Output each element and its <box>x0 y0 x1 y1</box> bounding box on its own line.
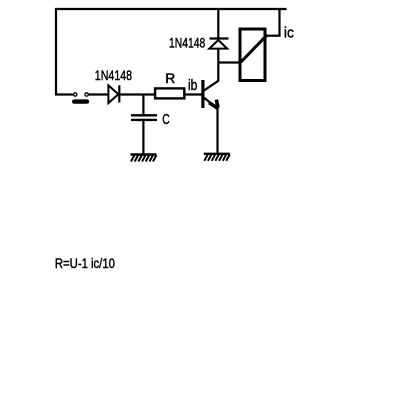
ground under Q1 emitter <box>204 154 230 161</box>
wire node to relay <box>218 61 240 63</box>
wire left vertical <box>55 8 57 96</box>
svg-text:R: R <box>165 71 175 86</box>
capacitor C <box>131 115 157 120</box>
svg-text:1N4148: 1N4148 <box>169 35 205 50</box>
resistor R <box>155 88 184 98</box>
diode D1 <box>108 85 119 103</box>
wire relay to top rail <box>266 8 280 37</box>
node cap junction <box>142 95 144 115</box>
wire Q1 emitter down <box>216 108 218 154</box>
svg-text:ic: ic <box>284 26 294 42</box>
svg-text:1N4148: 1N4148 <box>95 68 132 83</box>
switch S1 pushbutton <box>72 93 89 104</box>
wire D1 to R <box>119 93 154 95</box>
wire C to ground <box>142 121 144 154</box>
wire R to Q1 base <box>185 93 202 95</box>
transistor Q1 <box>201 80 218 108</box>
wire switch to D1 <box>88 93 108 95</box>
relay K1 <box>240 29 268 81</box>
ground under C <box>131 155 157 162</box>
svg-text:C: C <box>162 112 170 128</box>
wire top rail <box>55 8 287 10</box>
wire to switch <box>55 93 73 95</box>
svg-text:ib: ib <box>188 77 197 94</box>
svg-text:R=U-1 ic/10: R=U-1 ic/10 <box>55 256 115 271</box>
diode D2 flyback <box>209 8 228 49</box>
wire Q1 collector up <box>217 49 219 82</box>
